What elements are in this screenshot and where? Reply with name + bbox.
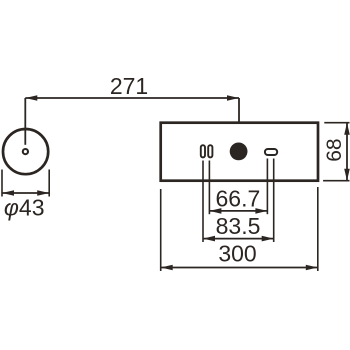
dimension line 300 (161, 267, 318, 269)
body rectangle (161, 123, 318, 181)
keyhole slot right (208, 145, 212, 157)
svg-text:φ43: φ43 (4, 195, 45, 221)
extension line below right slot (208, 161, 210, 215)
extension line from circle center up to 271 dimension (24, 98, 26, 145)
extension line below horizontal slot right (273, 159, 275, 243)
dimension line 83.5 (203, 238, 274, 240)
svg-text:66.7: 66.7 (216, 186, 261, 212)
extension line left of circle for dia 43 (1, 170, 3, 197)
svg-text:68: 68 (323, 138, 346, 161)
extension line below horizontal slot left (266, 159, 268, 215)
extension line down to mounting dot (238, 98, 240, 139)
center hole (23, 149, 28, 154)
extension line right of rect bottom edge (323, 180, 349, 182)
horizontal slot (265, 149, 277, 155)
dimension line dia43 (2, 192, 49, 194)
mounting dot (230, 143, 248, 161)
extension line right of circle for dia 43 (48, 170, 50, 197)
dimension line 68 (346, 123, 348, 181)
svg-text:83.5: 83.5 (216, 213, 261, 239)
keyhole slot left (201, 145, 205, 157)
extension line below rect left edge (160, 189, 162, 271)
dimension line 271 (25, 97, 239, 99)
svg-text:300: 300 (218, 241, 256, 267)
dimension line 66.7 (209, 210, 267, 212)
canopy circle (top view) (3, 129, 48, 174)
extension line right of rect top edge (324, 122, 349, 124)
extension line below rect right edge (317, 187, 319, 271)
extension line below left slot (202, 161, 204, 243)
svg-text:271: 271 (110, 73, 148, 99)
